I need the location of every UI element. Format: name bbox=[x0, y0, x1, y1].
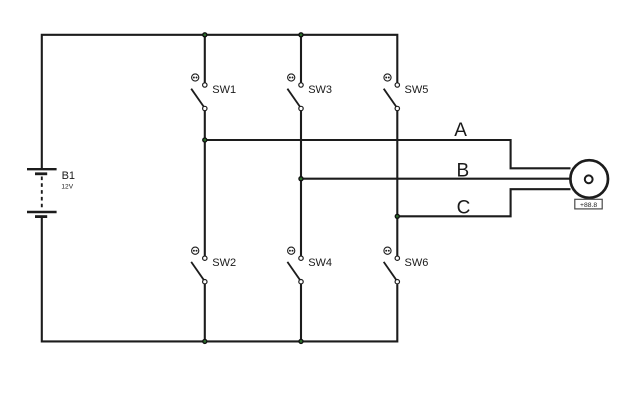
junction top rail column1 bbox=[202, 32, 207, 37]
junction bottom rail column2 bbox=[298, 339, 303, 344]
wire top rail bbox=[42, 35, 398, 169]
wire phase A bbox=[205, 140, 571, 168]
svg-text:SW6: SW6 bbox=[405, 257, 429, 269]
wire phase B bbox=[301, 178, 571, 180]
battery B1 bbox=[27, 169, 57, 216]
svg-text:SW1: SW1 bbox=[212, 84, 236, 96]
switch SW6 bbox=[384, 247, 400, 284]
svg-text:B1: B1 bbox=[62, 170, 75, 182]
motor rpm display +88.8 bbox=[575, 199, 602, 209]
svg-text:A: A bbox=[454, 120, 467, 141]
motor M1 bbox=[570, 160, 608, 198]
wire column2 middle bbox=[300, 111, 302, 256]
junction top rail column2 bbox=[298, 32, 303, 37]
switch SW1 label bbox=[212, 84, 236, 96]
switch SW5 label bbox=[405, 84, 429, 96]
svg-text:SW3: SW3 bbox=[308, 84, 332, 96]
wire bottom rail bbox=[42, 218, 398, 342]
switch SW2 bbox=[191, 247, 207, 284]
svg-text:SW4: SW4 bbox=[308, 257, 332, 269]
svg-text:B: B bbox=[457, 160, 470, 181]
svg-text:SW2: SW2 bbox=[212, 257, 236, 269]
switch SW6 label bbox=[405, 257, 429, 269]
switch SW4 label bbox=[308, 257, 332, 269]
node C label bbox=[457, 198, 471, 219]
switch SW3 bbox=[287, 74, 303, 111]
svg-text:SW5: SW5 bbox=[405, 84, 429, 96]
node B label bbox=[457, 160, 470, 181]
wire column2 top bbox=[300, 35, 302, 83]
svg-text:C: C bbox=[457, 198, 471, 219]
switch SW5 bbox=[384, 74, 400, 111]
wire column1 middle bbox=[204, 111, 206, 256]
svg-text:+88.8: +88.8 bbox=[580, 202, 597, 209]
battery B1 reference label bbox=[62, 170, 75, 182]
battery B1 value label 12V bbox=[61, 184, 73, 191]
wire column1 bottom bbox=[204, 284, 206, 341]
node A label bbox=[454, 120, 467, 141]
junction node A bbox=[202, 137, 207, 142]
switch SW2 label bbox=[212, 257, 236, 269]
wire column3 middle bbox=[396, 111, 398, 256]
junction node C bbox=[395, 214, 400, 219]
switch SW4 bbox=[287, 247, 303, 284]
svg-text:12V: 12V bbox=[61, 184, 73, 191]
wire column1 top bbox=[204, 35, 206, 83]
junction bottom rail column1 bbox=[202, 339, 207, 344]
wire column2 bottom bbox=[300, 284, 302, 341]
junction node B bbox=[298, 176, 303, 181]
switch SW3 label bbox=[308, 84, 332, 96]
wire phase C bbox=[397, 189, 570, 216]
switch SW1 bbox=[191, 74, 207, 111]
